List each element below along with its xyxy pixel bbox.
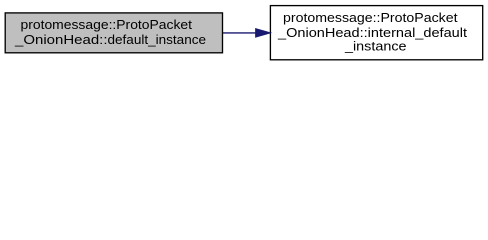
node box: protomessage::ProtoPacket_OnionHead::default_instance (current, grey) <box>5 13 222 53</box>
doxygen-style call graph: default_instance -> internal_default_instance <box>0 0 488 67</box>
svg-text:default_instance: default_instance <box>108 32 207 47</box>
node box: protomessage::ProtoPacket_OnionHead::internal_default_instance (white) <box>270 6 482 60</box>
svg-text:_instance: _instance <box>344 39 407 54</box>
svg-text:protomessage::ProtoPacket: protomessage::ProtoPacket <box>21 17 193 32</box>
edge arrowhead <box>256 29 270 37</box>
svg-text:protomessage::ProtoPacket: protomessage::ProtoPacket <box>283 10 458 25</box>
edge wire: call arrow shaft <box>223 32 257 34</box>
svg-text:_OnionHead::: _OnionHead:: <box>14 32 108 47</box>
